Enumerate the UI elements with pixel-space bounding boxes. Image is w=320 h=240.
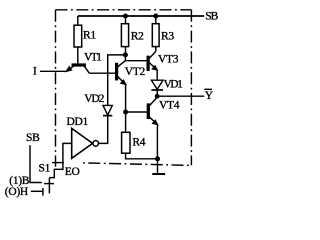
wire VT2 collector to R2 bbox=[124, 55, 126, 61]
node rail-R3 bbox=[154, 14, 158, 18]
border bottom right piece bbox=[83, 163, 191, 166]
resistor R3 bbox=[152, 24, 159, 47]
switch S1 arm bbox=[48, 178, 50, 194]
svg-text:R3: R3 bbox=[161, 30, 174, 42]
transistor VT4 bbox=[147, 97, 157, 124]
svg-text:R4: R4 bbox=[132, 137, 145, 149]
svg-text:I: I bbox=[33, 66, 37, 78]
svg-text:SB: SB bbox=[26, 132, 40, 144]
wire input I bbox=[40, 70, 66, 72]
wire VT2 emitter down bbox=[125, 84, 127, 112]
resistor R4 bbox=[122, 132, 130, 153]
border top bbox=[56, 9, 192, 11]
svg-text:R1: R1 bbox=[83, 30, 96, 42]
ground bbox=[152, 159, 165, 174]
transistor VT3 bbox=[147, 52, 157, 71]
wire VD2 to DD1 output bbox=[99, 116, 108, 144]
svg-text:VD1: VD1 bbox=[164, 79, 184, 91]
wire SB lower to switch B contact bbox=[30, 145, 42, 182]
svg-text:VT4: VT4 bbox=[159, 99, 180, 111]
power rail SB bbox=[78, 15, 204, 17]
border bottom left piece bbox=[52, 162, 67, 164]
wire R3 bottom to VT3 collector bbox=[155, 47, 157, 52]
node VT2e-R4-VT4b bbox=[124, 110, 128, 114]
svg-text:EO: EO bbox=[65, 166, 80, 178]
wire VT2 collector to VT3 base bbox=[125, 60, 147, 62]
resistor R2 bbox=[121, 24, 128, 47]
node R2-VT2 bbox=[124, 53, 128, 57]
switch S1 arm tick bbox=[44, 183, 54, 185]
node ground junction bbox=[156, 157, 160, 161]
border left bbox=[55, 10, 57, 167]
diode VD2 bbox=[103, 105, 112, 115]
transistor VT2 bbox=[116, 61, 126, 85]
node rail-R2 bbox=[124, 14, 128, 18]
diode VD1 bbox=[151, 80, 163, 90]
wire R1 top bbox=[77, 16, 79, 25]
wire VT4 emitter down bbox=[156, 124, 158, 158]
label Y output bbox=[204, 89, 214, 102]
svg-text:VT1: VT1 bbox=[84, 52, 102, 64]
wire node to R4 bbox=[125, 112, 127, 132]
wire VT3 emitter to VD1 bbox=[156, 70, 158, 80]
svg-text:VT2: VT2 bbox=[125, 66, 146, 78]
svg-text:SB: SB bbox=[205, 11, 218, 23]
svg-text:Y: Y bbox=[205, 90, 214, 102]
wire R4 bottom bbox=[126, 153, 158, 159]
svg-text:R2: R2 bbox=[131, 30, 144, 42]
resistor R1 bbox=[74, 25, 82, 47]
border right bbox=[190, 10, 192, 165]
wire R3 top bbox=[155, 16, 157, 24]
wire R1 bottom to VT1 base bbox=[77, 47, 79, 64]
gate DD1 bbox=[72, 128, 99, 158]
svg-text:S1: S1 bbox=[39, 163, 51, 175]
wire DD1 input to EO bbox=[49, 143, 71, 177]
wire output Y bbox=[157, 95, 204, 97]
switch S1 H contact bar bbox=[42, 188, 44, 196]
wire VD1 to output node bbox=[156, 90, 158, 96]
svg-text:(O)H: (O)H bbox=[5, 186, 28, 198]
wire R2 top bbox=[125, 16, 127, 24]
switch S1 H contact bbox=[31, 190, 43, 192]
wire R2 bottom bbox=[125, 47, 127, 55]
node output bbox=[156, 95, 159, 98]
svg-text:VT3: VT3 bbox=[158, 53, 179, 65]
wire node to VT4 base bbox=[126, 111, 148, 113]
svg-text:DD1: DD1 bbox=[67, 116, 89, 128]
wire VT1 collector to VT2 base bbox=[89, 72, 116, 74]
wire node to VD2 bbox=[108, 55, 126, 106]
transistor VT1 bbox=[66, 64, 89, 73]
svg-text:VD2: VD2 bbox=[84, 93, 104, 105]
